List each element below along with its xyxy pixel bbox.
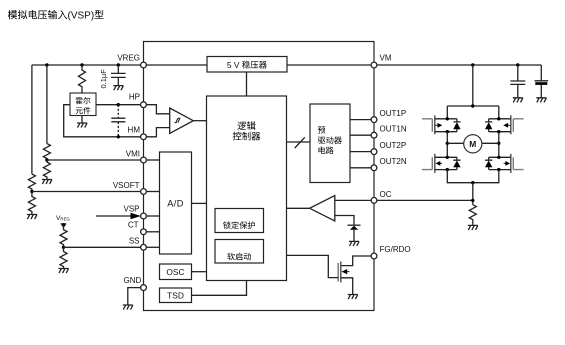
wire OC to sense node	[377, 199, 473, 201]
pin OUT1P	[371, 117, 377, 123]
pin FG/RDO	[371, 253, 377, 259]
ground (VSOFT divider)	[27, 215, 37, 220]
pin SS	[141, 244, 147, 250]
transistor Q2 upper-right	[485, 106, 524, 134]
pin OUT2P	[371, 149, 377, 155]
wire regulator to VM	[287, 64, 371, 66]
wire H-bridge feed	[472, 65, 474, 106]
transistor Q4 lower-right	[485, 154, 524, 173]
svg-text:VREG: VREG	[56, 215, 71, 222]
op-amp U1 hall comparator	[170, 108, 194, 133]
wire A/D to logic	[192, 202, 207, 204]
wire predriver to OUT2N	[350, 167, 371, 169]
resistor R7 (SS to gnd)	[60, 247, 67, 268]
wire VSOFT to pin	[32, 191, 141, 193]
wire right phase	[498, 132, 500, 158]
resistor R6 (Vreg to SS)	[60, 225, 67, 247]
block predriver 预驱动器电路	[310, 104, 350, 183]
wire VSOFT divider vertical	[31, 65, 33, 174]
resistor R2 (VMI to gnd)	[43, 160, 50, 179]
wire predriver to OUT1N	[350, 134, 371, 136]
pin OC	[371, 198, 377, 204]
capacitor C4 electrolytic	[535, 65, 549, 97]
wire OC comparator out to logic	[287, 207, 310, 209]
node HP/C2	[117, 103, 120, 106]
wire GND pin to ground	[128, 288, 141, 305]
Q5 arrow	[343, 271, 350, 273]
ground (sense)	[468, 225, 478, 230]
wire VSOFT to A/D	[146, 191, 159, 193]
wire logic to predriver	[287, 141, 311, 143]
capacitor C1 0.1uF lead	[117, 65, 119, 85]
wire bottom bus	[447, 170, 499, 183]
ground (Q5 source)	[348, 295, 358, 300]
svg-text:5 V: 5 V	[227, 60, 240, 70]
svg-text:GND: GND	[124, 276, 142, 285]
pin CT	[141, 229, 147, 235]
svg-text:HP: HP	[129, 93, 140, 102]
capacitor C1 plates	[111, 73, 126, 77]
VSP input arrow	[96, 215, 131, 217]
ground (C1)	[113, 86, 123, 91]
svg-text:OUT2P: OUT2P	[380, 141, 407, 150]
node VMI junction	[45, 158, 48, 161]
wire VMI divider vertical	[46, 65, 48, 144]
ground (hall)	[77, 116, 87, 128]
wire sense	[472, 183, 474, 205]
wire VMI to pin	[47, 159, 141, 161]
wire HM to comparator	[146, 128, 169, 137]
node junction VREG/divider1	[45, 63, 48, 66]
svg-text:OUT1P: OUT1P	[380, 109, 407, 118]
svg-text:HM: HM	[128, 125, 141, 134]
capacitor C3	[510, 65, 525, 97]
motor M	[464, 135, 482, 153]
node motor right	[497, 142, 500, 145]
svg-text:OSC: OSC	[166, 267, 184, 277]
svg-text:CT: CT	[128, 220, 139, 229]
ground (SS)	[59, 269, 69, 274]
svg-text:VSP: VSP	[123, 205, 139, 214]
wire SS to pin	[64, 246, 141, 248]
resistor R1 (VREG to VMI)	[43, 144, 50, 161]
capacitor C2 dashed leads	[117, 105, 119, 137]
wire SS to A/D	[146, 246, 159, 248]
wire TSD to logic	[192, 281, 247, 296]
block TSD	[160, 288, 192, 303]
svg-text:VMI: VMI	[126, 149, 140, 158]
block OSC	[160, 264, 192, 280]
ground (OC ref)	[349, 241, 359, 246]
wire FG gate from logic	[287, 255, 339, 277]
node SS junction	[62, 246, 65, 249]
svg-text:VREG: VREG	[117, 53, 140, 62]
pin VREG	[141, 62, 147, 68]
svg-text:TSD: TSD	[167, 291, 184, 301]
wire predriver to OUT2P	[350, 151, 371, 153]
wire VREG rail	[32, 64, 141, 66]
transistor Q3 lower-left	[422, 154, 461, 173]
ground (VMI divider)	[42, 180, 52, 185]
wire VM rail	[377, 64, 541, 66]
svg-text:0.1µF: 0.1µF	[99, 69, 108, 89]
op-amp U2 OC comparator	[310, 196, 335, 222]
pin VSOFT	[141, 189, 147, 195]
pin OUT2N	[371, 165, 377, 171]
hall element box 霍尔元件	[70, 93, 96, 116]
diode D1 reference	[348, 224, 361, 226]
svg-text:VM: VM	[380, 53, 392, 62]
wire comparator out to logic	[193, 120, 206, 122]
wire OSC to logic	[192, 271, 207, 273]
block A/D	[160, 152, 192, 254]
pin OUT1N	[371, 132, 377, 138]
capacitor C2 plates	[111, 118, 125, 122]
wire VMI to A/D	[146, 159, 159, 161]
transistor Q1 upper-left	[422, 106, 461, 134]
wire HP (hall to pin)	[96, 104, 141, 106]
wire regulator to logic	[246, 72, 248, 96]
block logic controller 逻辑控制器	[207, 96, 287, 281]
pin HP	[141, 102, 147, 108]
wire FG pin to mosfet drain	[341, 256, 371, 266]
resistor R8 current sense	[469, 205, 476, 225]
node VSOFT junction	[30, 190, 33, 193]
wire HP to comparator	[146, 105, 169, 114]
pin VSP	[141, 213, 147, 219]
bus slash	[295, 137, 305, 148]
svg-text:OUT1N: OUT1N	[380, 125, 407, 134]
title 模拟电压输入(VSP)型	[8, 10, 67, 19]
wire motor leads	[447, 142, 499, 144]
pin VM	[371, 62, 377, 68]
node VM/C3	[516, 63, 519, 66]
svg-text:M: M	[469, 139, 476, 149]
svg-text:FG/RDO: FG/RDO	[380, 245, 411, 254]
ground (GND pin)	[123, 305, 133, 310]
wire predriver to OUT1P	[350, 119, 371, 121]
pin HM	[141, 134, 147, 140]
node Vreg supply tick	[61, 223, 67, 225]
svg-text:VSOFT: VSOFT	[113, 181, 140, 190]
node HM/C2	[117, 135, 120, 138]
wire VSP to A/D	[146, 215, 159, 217]
wire HM (hall left, down, to pin)	[64, 105, 141, 137]
node junction VREG/C1	[117, 63, 120, 66]
svg-text:SS: SS	[129, 237, 140, 246]
node VM/H-bridge	[471, 63, 474, 66]
pin VMI	[141, 157, 147, 163]
block soft start 软启动	[215, 240, 264, 264]
pin GND	[141, 285, 147, 291]
wire CT to A/D	[146, 231, 159, 233]
ground (C3)	[513, 98, 523, 103]
hysteresis mark	[175, 118, 181, 122]
ground (C4)	[536, 98, 546, 103]
wire OC reference	[335, 216, 354, 226]
svg-text:OUT2N: OUT2N	[380, 157, 407, 166]
resistor R4 (VSOFT to gnd)	[28, 192, 35, 215]
wire OC pin to comparator	[335, 199, 371, 201]
block lock protection 锁定保护	[215, 209, 264, 233]
IC outline	[144, 42, 375, 311]
Q5 source stub	[341, 278, 353, 294]
resistor R5 (VREG to hall)	[79, 65, 86, 93]
svg-text:OC: OC	[380, 190, 392, 199]
wire VREG to 5V regulator	[146, 64, 207, 66]
wire H-bridge top bus	[447, 105, 499, 107]
svg-text:A/D: A/D	[167, 199, 184, 209]
wire left phase	[446, 132, 448, 158]
transistor Q5 FG open-drain	[337, 263, 339, 282]
block 5V regulator 5 V 稳压器	[207, 57, 287, 73]
node junction VREG/hall	[80, 63, 83, 66]
node motor left	[446, 142, 449, 145]
resistor R3 (VREG to VSOFT)	[28, 174, 35, 192]
svg-text:(VSP): (VSP)	[68, 10, 95, 21]
